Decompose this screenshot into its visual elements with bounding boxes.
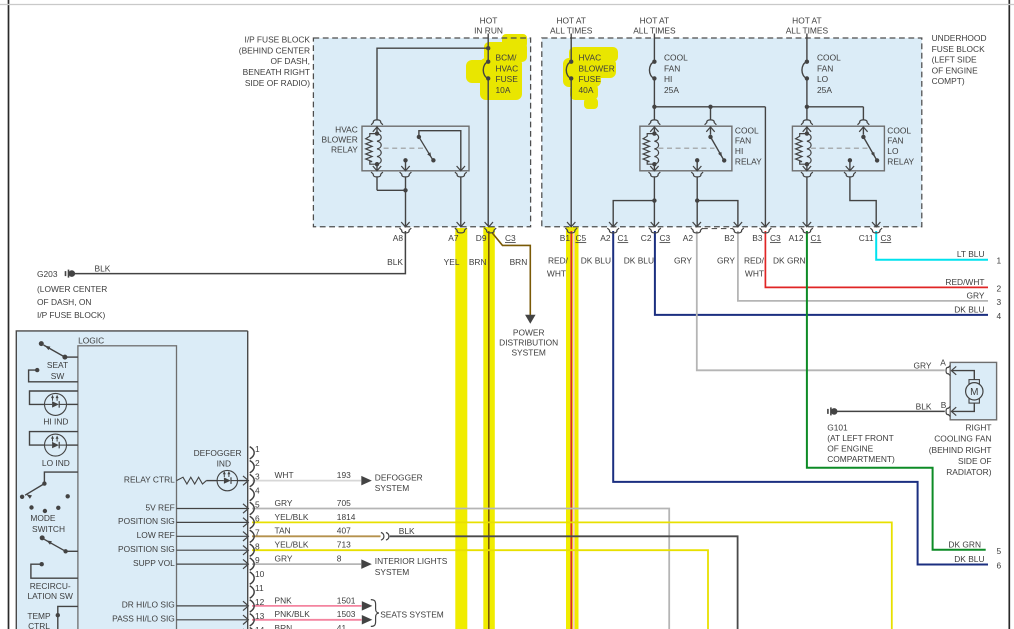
- svg-text:GRY: GRY: [674, 255, 692, 265]
- svg-text:25A: 25A: [664, 85, 679, 95]
- svg-text:CTRL: CTRL: [28, 621, 50, 629]
- svg-text:25A: 25A: [817, 85, 832, 95]
- svg-text:DR HI/LO SIG: DR HI/LO SIG: [122, 600, 175, 610]
- svg-text:C11: C11: [859, 233, 874, 243]
- svg-text:HVAC: HVAC: [496, 63, 519, 73]
- svg-text:SYSTEM: SYSTEM: [511, 348, 545, 358]
- svg-text:POWER: POWER: [513, 327, 545, 337]
- svg-text:COMPT): COMPT): [932, 76, 965, 86]
- svg-text:GRY: GRY: [275, 498, 293, 508]
- svg-text:YEL: YEL: [444, 257, 460, 267]
- svg-text:IND: IND: [217, 459, 231, 469]
- svg-text:ALL TIMES: ALL TIMES: [786, 26, 829, 36]
- svg-text:LT BLU: LT BLU: [957, 249, 985, 259]
- svg-text:8: 8: [255, 541, 260, 551]
- svg-text:OF ENGINE: OF ENGINE: [932, 65, 978, 75]
- svg-text:BRN: BRN: [469, 257, 487, 267]
- svg-text:COOL: COOL: [664, 53, 688, 63]
- svg-text:FAN: FAN: [735, 136, 751, 146]
- svg-text:SIDE OF: SIDE OF: [958, 456, 992, 466]
- svg-text:BLOWER: BLOWER: [321, 135, 357, 145]
- svg-text:C2: C2: [641, 233, 652, 243]
- svg-text:ALL TIMES: ALL TIMES: [633, 26, 676, 36]
- svg-text:705: 705: [337, 498, 351, 508]
- svg-text:FAN: FAN: [664, 63, 680, 73]
- svg-text:407: 407: [337, 526, 351, 536]
- svg-text:GRY: GRY: [914, 360, 932, 370]
- svg-text:B2: B2: [724, 233, 735, 243]
- svg-text:41: 41: [337, 623, 347, 629]
- svg-text:HVAC: HVAC: [335, 124, 358, 134]
- svg-text:(LEFT SIDE: (LEFT SIDE: [932, 55, 977, 65]
- svg-text:7: 7: [255, 527, 260, 537]
- svg-text:HOT AT: HOT AT: [792, 15, 821, 25]
- svg-text:WHT: WHT: [745, 268, 764, 278]
- svg-text:WHT: WHT: [275, 470, 294, 480]
- svg-text:DEFOGGER: DEFOGGER: [375, 472, 423, 482]
- svg-text:TEMP: TEMP: [27, 611, 51, 621]
- svg-text:1501: 1501: [337, 595, 356, 605]
- svg-text:LOGIC: LOGIC: [78, 335, 104, 345]
- svg-text:C5: C5: [576, 233, 587, 243]
- svg-text:RADIATOR): RADIATOR): [946, 467, 991, 477]
- svg-text:5: 5: [997, 546, 1002, 556]
- svg-text:D9: D9: [476, 233, 487, 243]
- svg-text:A2: A2: [600, 233, 611, 243]
- svg-text:HVAC: HVAC: [579, 53, 602, 63]
- svg-text:SIDE OF RADIO): SIDE OF RADIO): [245, 78, 310, 88]
- svg-text:1814: 1814: [337, 512, 356, 522]
- svg-text:DK GRN: DK GRN: [948, 539, 981, 549]
- svg-text:HOT AT: HOT AT: [556, 15, 585, 25]
- svg-text:I/P FUSE BLOCK: I/P FUSE BLOCK: [245, 35, 311, 45]
- svg-text:G203: G203: [37, 269, 58, 279]
- svg-text:1: 1: [997, 256, 1002, 266]
- svg-text:TAN: TAN: [275, 526, 291, 536]
- svg-text:COMPARTMENT): COMPARTMENT): [827, 454, 895, 464]
- svg-text:B: B: [941, 400, 947, 410]
- svg-text:LO IND: LO IND: [42, 458, 70, 468]
- svg-text:713: 713: [337, 540, 351, 550]
- svg-text:M: M: [970, 387, 978, 398]
- svg-text:COOL: COOL: [887, 125, 911, 135]
- svg-text:YEL/BLK: YEL/BLK: [275, 512, 309, 522]
- svg-text:6: 6: [255, 514, 260, 524]
- svg-text:SWITCH: SWITCH: [32, 524, 65, 534]
- svg-text:DK BLU: DK BLU: [624, 255, 654, 265]
- svg-text:B1: B1: [560, 233, 571, 243]
- svg-text:C1: C1: [618, 233, 629, 243]
- svg-text:BCM/: BCM/: [496, 53, 518, 63]
- svg-text:HOT AT: HOT AT: [640, 15, 669, 25]
- svg-text:OF DASH,: OF DASH,: [270, 56, 310, 66]
- svg-text:DK BLU: DK BLU: [954, 304, 984, 314]
- svg-text:1: 1: [255, 444, 260, 454]
- svg-text:HOT: HOT: [480, 15, 498, 25]
- svg-text:SEATS SYSTEM: SEATS SYSTEM: [380, 610, 444, 620]
- svg-text:PASS HI/LO SIG: PASS HI/LO SIG: [112, 614, 175, 624]
- svg-text:LATION SW: LATION SW: [27, 591, 73, 601]
- svg-text:A7: A7: [448, 233, 459, 243]
- svg-text:PNK: PNK: [275, 595, 293, 605]
- svg-text:I/P FUSE BLOCK): I/P FUSE BLOCK): [37, 310, 105, 320]
- svg-text:RELAY: RELAY: [735, 157, 762, 167]
- svg-text:SUPP VOL: SUPP VOL: [133, 558, 175, 568]
- svg-text:BLK: BLK: [399, 526, 415, 536]
- svg-text:DISTRIBUTION: DISTRIBUTION: [499, 338, 558, 348]
- svg-text:COOLING FAN: COOLING FAN: [934, 434, 991, 444]
- svg-text:10A: 10A: [496, 85, 511, 95]
- svg-text:IN RUN: IN RUN: [474, 26, 503, 36]
- svg-text:HI: HI: [735, 146, 743, 156]
- svg-text:40A: 40A: [579, 85, 594, 95]
- svg-text:10: 10: [255, 569, 265, 579]
- svg-text:C3: C3: [881, 233, 892, 243]
- svg-text:OF DASH, ON: OF DASH, ON: [37, 297, 91, 307]
- svg-text:COOL: COOL: [735, 125, 759, 135]
- svg-text:BLOWER: BLOWER: [579, 63, 615, 73]
- svg-text:GRY: GRY: [967, 290, 985, 300]
- svg-text:9: 9: [255, 555, 260, 565]
- svg-text:13: 13: [255, 611, 265, 621]
- svg-text:2: 2: [255, 458, 260, 468]
- svg-text:C3: C3: [505, 233, 516, 243]
- svg-text:C3: C3: [660, 233, 671, 243]
- svg-text:11: 11: [255, 583, 264, 593]
- svg-text:FUSE: FUSE: [496, 74, 519, 84]
- svg-text:5: 5: [255, 500, 260, 510]
- svg-text:BLK: BLK: [387, 257, 403, 267]
- svg-text:POSITION SIG: POSITION SIG: [118, 544, 175, 554]
- svg-text:5V REF: 5V REF: [145, 502, 174, 512]
- svg-text:SW: SW: [51, 371, 65, 381]
- svg-text:(AT LEFT FRONT: (AT LEFT FRONT: [827, 433, 894, 443]
- svg-text:A2: A2: [683, 233, 694, 243]
- svg-text:BLK: BLK: [916, 402, 932, 412]
- svg-text:HI: HI: [664, 74, 672, 84]
- svg-text:14: 14: [255, 625, 265, 629]
- svg-text:COOL: COOL: [817, 53, 841, 63]
- svg-text:ALL TIMES: ALL TIMES: [550, 26, 593, 36]
- svg-text:C3: C3: [770, 233, 781, 243]
- svg-text:193: 193: [337, 470, 351, 480]
- svg-text:DEFOGGER: DEFOGGER: [194, 448, 242, 458]
- svg-text:SEAT: SEAT: [47, 360, 68, 370]
- svg-text:FAN: FAN: [817, 63, 833, 73]
- svg-text:SYSTEM: SYSTEM: [375, 483, 409, 493]
- svg-text:LO: LO: [817, 74, 829, 84]
- svg-text:OF ENGINE: OF ENGINE: [827, 444, 873, 454]
- svg-text:RELAY: RELAY: [887, 157, 914, 167]
- svg-text:BRN: BRN: [510, 257, 528, 267]
- svg-text:FUSE BLOCK: FUSE BLOCK: [932, 44, 985, 54]
- svg-text:(BEHIND RIGHT: (BEHIND RIGHT: [929, 445, 992, 455]
- svg-text:BLK: BLK: [95, 264, 111, 274]
- svg-text:LO: LO: [887, 146, 899, 156]
- svg-text:RED/: RED/: [548, 255, 569, 265]
- svg-text:4: 4: [255, 486, 260, 496]
- svg-text:3: 3: [255, 472, 260, 482]
- svg-text:PNK/BLK: PNK/BLK: [275, 609, 311, 619]
- svg-text:A8: A8: [393, 233, 404, 243]
- svg-text:C1: C1: [811, 233, 822, 243]
- svg-text:RED/WHT: RED/WHT: [945, 277, 984, 287]
- svg-text:1503: 1503: [337, 609, 356, 619]
- svg-text:G101: G101: [827, 423, 848, 433]
- svg-text:RED/: RED/: [744, 255, 765, 265]
- svg-text:POSITION SIG: POSITION SIG: [118, 516, 175, 526]
- svg-text:2: 2: [997, 284, 1002, 294]
- svg-text:6: 6: [997, 561, 1002, 571]
- svg-text:WHT: WHT: [547, 268, 566, 278]
- svg-text:A: A: [940, 357, 946, 367]
- svg-text:RIGHT: RIGHT: [965, 423, 991, 433]
- svg-text:YEL/BLK: YEL/BLK: [275, 540, 309, 550]
- svg-text:3: 3: [997, 297, 1002, 307]
- svg-text:GRY: GRY: [275, 554, 293, 564]
- svg-text:MODE: MODE: [30, 513, 56, 523]
- svg-text:12: 12: [255, 597, 265, 607]
- svg-text:FAN: FAN: [887, 136, 903, 146]
- svg-text:SYSTEM: SYSTEM: [375, 567, 409, 577]
- svg-text:UNDERHOOD: UNDERHOOD: [932, 33, 987, 43]
- svg-text:RELAY CTRL: RELAY CTRL: [124, 475, 175, 485]
- svg-text:FUSE: FUSE: [579, 74, 602, 84]
- svg-text:LOW REF: LOW REF: [137, 530, 175, 540]
- svg-text:BENEATH RIGHT: BENEATH RIGHT: [243, 67, 310, 77]
- svg-text:A12: A12: [789, 233, 804, 243]
- svg-text:DK BLU: DK BLU: [581, 255, 611, 265]
- svg-text:INTERIOR LIGHTS: INTERIOR LIGHTS: [375, 556, 448, 566]
- svg-text:HI IND: HI IND: [43, 417, 68, 427]
- svg-text:BRN: BRN: [275, 623, 293, 629]
- svg-text:(BEHIND CENTER: (BEHIND CENTER: [239, 45, 310, 55]
- svg-text:GRY: GRY: [717, 255, 735, 265]
- svg-text:(LOWER CENTER: (LOWER CENTER: [37, 284, 107, 294]
- svg-text:DK GRN: DK GRN: [773, 255, 806, 265]
- svg-text:RECIRCU-: RECIRCU-: [30, 581, 71, 591]
- svg-text:B3: B3: [752, 233, 763, 243]
- svg-text:RELAY: RELAY: [331, 145, 358, 155]
- svg-text:4: 4: [997, 311, 1002, 321]
- svg-text:8: 8: [337, 554, 342, 564]
- svg-text:DK BLU: DK BLU: [954, 554, 984, 564]
